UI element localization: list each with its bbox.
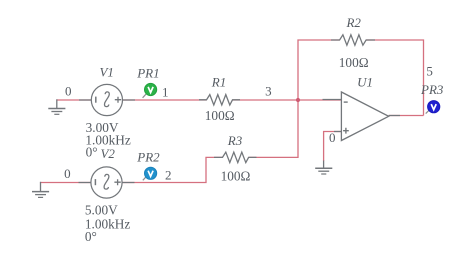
svg-text:R1: R1: [211, 74, 226, 89]
wire op-amp plus to ground3: [324, 132, 342, 162]
probe PR3: [426, 101, 440, 114]
wire node 3 down to R3: [249, 100, 298, 157]
AC source V2: [79, 167, 135, 198]
svg-text:100Ω: 100Ω: [205, 108, 235, 123]
svg-text:0: 0: [329, 130, 336, 145]
probe PR2: [143, 167, 157, 180]
svg-text:V2: V2: [100, 146, 115, 161]
svg-text:R2: R2: [345, 15, 361, 30]
svg-text:5: 5: [426, 63, 433, 78]
wire op-amp output: [389, 115, 424, 117]
wire ground2 to V2: [41, 182, 92, 184]
wire V1 to R1: [123, 99, 207, 101]
wire R1 to op-amp minus / node 3: [233, 99, 342, 101]
ground (top-left): [48, 99, 65, 114]
svg-text:V1: V1: [99, 64, 113, 79]
svg-text:PR2: PR2: [136, 149, 160, 164]
wire V2 to R3: [122, 157, 223, 182]
svg-text:0°: 0°: [85, 229, 97, 244]
probe PR1: [143, 83, 157, 97]
wire feedback up from node 3 to R2: [298, 40, 340, 100]
ground (V2, left): [32, 182, 49, 198]
resistor R3: [214, 152, 257, 162]
svg-text:100Ω: 100Ω: [339, 55, 369, 70]
op-amp U1: [323, 92, 401, 141]
svg-text:0: 0: [64, 166, 71, 181]
svg-text:PR1: PR1: [136, 66, 159, 81]
wire net ground1 to V1: [57, 99, 91, 101]
svg-text:0°: 0°: [86, 144, 98, 159]
svg-text:0: 0: [65, 84, 72, 99]
resistor R1: [199, 95, 240, 105]
svg-text:100Ω: 100Ω: [221, 169, 251, 184]
svg-text:R3: R3: [227, 133, 243, 148]
svg-text:PR3: PR3: [420, 82, 444, 97]
AC source V1: [79, 84, 135, 115]
ground (op-amp): [315, 161, 332, 175]
svg-text:1: 1: [162, 84, 169, 99]
svg-text:3: 3: [265, 84, 272, 99]
junction node 3: [296, 98, 300, 102]
resistor R2: [331, 35, 375, 45]
svg-text:U1: U1: [357, 74, 373, 89]
wire R2 right to output corner: [366, 40, 423, 116]
svg-text:2: 2: [165, 168, 172, 183]
